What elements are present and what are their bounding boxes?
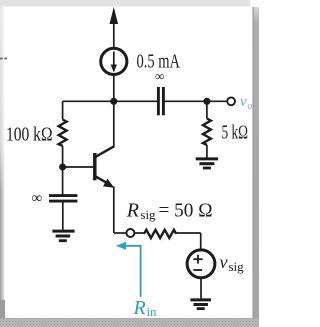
svg-text:in: in bbox=[147, 305, 157, 319]
svg-text:v: v bbox=[240, 94, 247, 110]
svg-text:sig: sig bbox=[140, 207, 156, 222]
svg-text:∞: ∞ bbox=[155, 69, 164, 84]
svg-text:v: v bbox=[220, 252, 228, 272]
svg-text:R: R bbox=[133, 297, 146, 319]
svg-text:o: o bbox=[247, 101, 252, 112]
svg-text:sig: sig bbox=[229, 259, 245, 274]
svg-text:5 kΩ: 5 kΩ bbox=[222, 122, 249, 144]
svg-text:R: R bbox=[126, 200, 139, 222]
svg-text:100 kΩ: 100 kΩ bbox=[6, 124, 53, 146]
svg-text:∞: ∞ bbox=[32, 191, 43, 207]
svg-text:= 50 Ω: = 50 Ω bbox=[159, 200, 213, 222]
